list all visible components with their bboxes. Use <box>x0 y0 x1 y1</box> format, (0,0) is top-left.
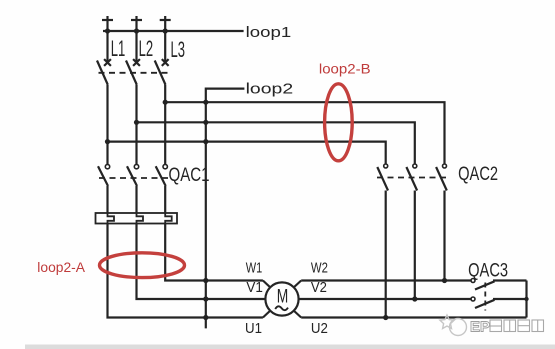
overload relay FR box <box>96 213 178 224</box>
wire W2 run to QAC3 pole1 <box>301 279 471 281</box>
wire loop1 bus <box>103 30 244 32</box>
wire W2 diagonal out of motor <box>294 281 302 288</box>
contactor QAC2 pole 1 <box>377 164 388 191</box>
wire pole3 vertical breaker to QAC1 <box>164 85 166 165</box>
wire C pole1 to QAC2 pole1 <box>108 142 386 164</box>
svg-text:V1: V1 <box>246 279 263 296</box>
wire pole3 overload to W1 run <box>165 224 263 281</box>
node loop2 V1 <box>203 296 208 301</box>
wire QAC3 pole2 to star bus <box>493 298 527 300</box>
svg-text:U2: U2 <box>311 320 328 337</box>
contactor QAC3 pole 2 <box>471 297 495 308</box>
motor tilde <box>275 306 288 310</box>
contactor QAC2 pole 3 <box>436 164 447 191</box>
wire pole2 overload to V1 run <box>137 224 266 300</box>
svg-text:loop1: loop1 <box>246 25 292 41</box>
breaker linkage dashed <box>99 72 169 74</box>
node QAC2 pole2 V2 <box>412 296 417 301</box>
wire pole1 QAC1 to overload <box>106 186 108 213</box>
node star bus V2 <box>524 297 528 301</box>
contactor QAC1 pole 3 <box>156 164 168 186</box>
terminal L2 lead <box>135 16 137 63</box>
annotation loop2-B ellipse <box>325 84 353 161</box>
terminal L3 lead <box>164 16 166 63</box>
wire pole1 overload to U1 run <box>108 224 263 318</box>
wire QAC2 pole3 down to W2 <box>443 191 445 281</box>
svg-text:L1: L1 <box>111 36 126 61</box>
node loop2 U1 <box>203 315 208 320</box>
wire pole1 vertical breaker to QAC1 <box>106 85 108 165</box>
wire U2 run to star bus <box>301 316 526 318</box>
svg-text:loop2: loop2 <box>246 81 294 97</box>
wire loop2 tap <box>206 89 245 329</box>
svg-text:QAC3: QAC3 <box>468 261 508 282</box>
terminal L3 tick <box>160 19 171 21</box>
QAC2 linkage dashed <box>377 177 448 179</box>
contactor QAC1 pole 1 <box>98 164 110 186</box>
terminal L1 lead <box>106 16 108 63</box>
svg-text:L3: L3 <box>171 37 186 62</box>
watermark hanzi blocks <box>490 320 544 332</box>
breaker QF pole 1 <box>97 59 111 84</box>
node L3 bus <box>163 28 168 33</box>
node pole1 wireC <box>105 139 110 144</box>
terminal L1 tick <box>102 19 113 21</box>
node pole3 wireA <box>163 100 168 105</box>
svg-text:U1: U1 <box>245 320 262 337</box>
node QAC2 pole3 W2 <box>442 278 447 283</box>
wire A pole3 to QAC2 pole3 <box>165 102 444 163</box>
svg-text:QAC2: QAC2 <box>458 164 498 185</box>
QAC1 linkage dashed <box>99 177 168 179</box>
svg-text:V2: V2 <box>311 279 327 296</box>
wire V2 run to QAC3 pole2 <box>299 298 471 300</box>
contactor QAC1 pole 2 <box>127 164 139 186</box>
wire pole2 QAC1 to overload <box>135 186 137 213</box>
motor M circle <box>265 282 298 315</box>
breaker QF pole 2 <box>126 59 140 84</box>
svg-text:QAC1: QAC1 <box>169 165 210 186</box>
wire QAC3 pole1 to star bus <box>493 279 527 281</box>
wire U1 diagonal into motor <box>263 311 271 318</box>
wire QAC2 pole2 down to V2 <box>414 191 416 300</box>
svg-text:EP: EP <box>470 319 490 336</box>
watermark logo <box>440 315 467 336</box>
svg-text:W1: W1 <box>246 259 263 276</box>
overload heater element 2 <box>137 213 144 224</box>
contactor QAC3 pole 1 <box>471 279 495 290</box>
overload heater element 1 <box>108 213 115 224</box>
wire pole2 vertical breaker to QAC1 <box>135 85 137 165</box>
breaker QF pole 3 <box>155 59 169 84</box>
node L2 bus <box>134 28 139 33</box>
contactor QAC2 pole 2 <box>406 164 417 191</box>
QAC3 linkage dashed <box>484 283 486 311</box>
node loop2 wireB <box>203 120 208 125</box>
svg-text:M: M <box>277 286 289 307</box>
node loop2 wireC <box>203 139 208 144</box>
wire U2 diagonal out of motor <box>294 311 302 318</box>
annotation loop2-A ellipse <box>100 253 185 278</box>
svg-text:L2: L2 <box>139 36 154 61</box>
wire B pole2 to QAC2 pole2 <box>137 122 415 163</box>
node loop2 wireA <box>203 100 208 105</box>
terminal L2 tick <box>131 19 142 21</box>
node QAC2 pole1 U2 <box>383 315 388 320</box>
node loop2 W1 <box>203 278 208 283</box>
svg-text:loop2-B: loop2-B <box>319 62 371 77</box>
node pole2 wireB <box>134 120 139 125</box>
wire QAC2 pole1 down to U2 <box>385 191 387 318</box>
wire W1 diagonal into motor <box>263 281 271 288</box>
svg-text:W2: W2 <box>311 259 328 276</box>
overload heater element 3 <box>165 213 172 224</box>
svg-text:loop2-A: loop2-A <box>37 260 85 275</box>
wire pole3 QAC1 to overload <box>164 186 166 213</box>
bottom gray bar <box>25 345 555 349</box>
wire star bus vertical <box>525 281 527 318</box>
node L1 bus <box>105 28 110 33</box>
